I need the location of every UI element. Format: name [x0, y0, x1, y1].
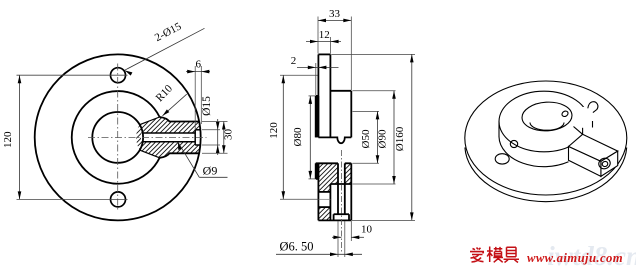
svg-text:www.aimuju.com: www.aimuju.com: [527, 251, 623, 265]
svg-text:Ø160: Ø160: [394, 126, 406, 151]
svg-text:Ø9: Ø9: [203, 164, 218, 178]
svg-text:33: 33: [329, 8, 341, 20]
svg-text:120: 120: [268, 122, 280, 139]
svg-text:Ø90: Ø90: [377, 129, 389, 148]
svg-text:Ø15: Ø15: [201, 96, 213, 116]
svg-text:2: 2: [291, 55, 297, 67]
svg-text:Ø80: Ø80: [292, 127, 304, 146]
svg-text:10: 10: [361, 224, 373, 236]
svg-text:Ø50: Ø50: [360, 129, 372, 148]
svg-text:30: 30: [223, 129, 235, 141]
svg-text:6: 6: [196, 59, 202, 71]
svg-text:120: 120: [2, 131, 14, 148]
svg-text:Ø6. 50: Ø6. 50: [279, 240, 313, 254]
svg-text:12: 12: [319, 29, 330, 41]
